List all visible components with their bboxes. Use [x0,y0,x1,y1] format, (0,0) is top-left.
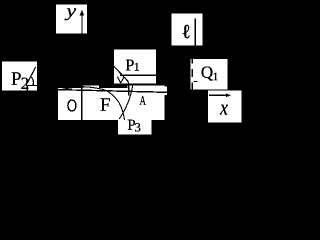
dashed line l near Q1 [191,56,193,91]
horizontal line in P1 box [120,74,156,76]
glyph F [100,98,109,110]
y axis arrow in y box [81,15,83,34]
P3 label box [118,117,151,135]
P1 label box [114,50,156,84]
glyph y [65,8,77,20]
glyph 1 of P1 [135,63,139,71]
ray from P2 across strip to vertex [60,87,125,120]
glyph 1 of Q1 [214,73,218,81]
angle arc at P2 [31,77,34,86]
strip top notch left of P1 box [83,86,99,89]
right branch curve up from vertex [119,85,133,119]
ray into P2 [26,67,37,91]
line l (solid segment in l box) [194,18,196,45]
glyph P of P2 [12,72,21,84]
x label box [208,91,241,123]
axis strip panel [58,88,165,120]
y-axis label box [56,4,87,33]
glyph x [220,105,228,115]
glyph P of P1 [126,60,134,71]
Q1 label box [191,59,228,90]
x axis arrow in x box [209,94,228,96]
P2 label box [2,61,37,90]
tick in Q1 box [193,81,197,83]
y axis line in strip [81,88,83,120]
strip under P1 box right part [128,85,165,88]
axis strip right stub [165,87,168,96]
glyph A [140,96,146,105]
ray through P1 box curving down [114,67,129,96]
l label box [171,13,202,45]
glyph Q [202,67,213,81]
glyph l [183,25,190,39]
origin O label [68,100,76,111]
glyph 3 of P3 [135,123,140,131]
x axis main line [58,90,167,93]
glyph P of P3 [128,120,135,130]
glyph 2 of P2 [21,78,28,89]
arrowhead on P1 ray [117,77,124,83]
